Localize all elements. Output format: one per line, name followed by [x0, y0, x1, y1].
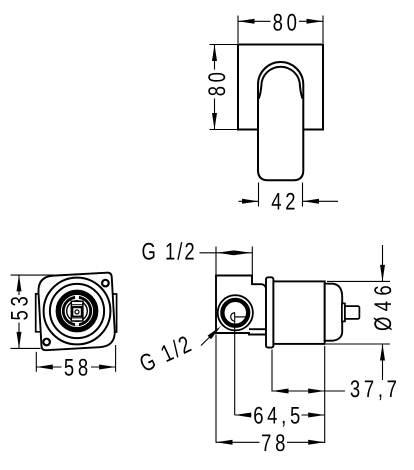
svg-text:80: 80: [204, 68, 231, 96]
svg-text:80: 80: [273, 9, 301, 36]
svg-text:37,7: 37,7: [350, 376, 401, 403]
svg-text:53: 53: [7, 293, 34, 321]
svg-text:78: 78: [261, 430, 289, 457]
svg-text:Ø46: Ø46: [370, 280, 397, 331]
svg-text:G 1/2: G 1/2: [142, 239, 197, 266]
svg-text:42: 42: [271, 189, 299, 216]
svg-text:64,5: 64,5: [253, 403, 304, 430]
svg-text:58: 58: [64, 354, 92, 381]
